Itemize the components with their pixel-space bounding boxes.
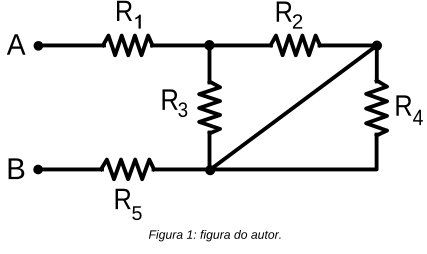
wire R2 to node D: [320, 43, 378, 47]
wire A to R1: [38, 43, 104, 47]
label R5 subscript 5: [132, 206, 141, 220]
wire node D down to R4: [375, 45, 379, 81]
label R3 subscript 3: [178, 102, 187, 117]
label R1 subscript 1: [135, 15, 141, 29]
resistor R1: [103, 36, 153, 56]
node D junction dot: [372, 41, 382, 51]
wire R3 to node E: [208, 133, 212, 170]
wire R1 to node C: [152, 43, 271, 47]
label R4 "R": [396, 95, 411, 115]
node terminal B dot: [33, 165, 43, 175]
resistor R2: [271, 36, 321, 56]
wire diagonal E to D: [210, 46, 377, 170]
node terminal A dot: [34, 41, 44, 51]
wire node C down to R3: [208, 45, 212, 82]
wire B to R5: [38, 167, 102, 171]
label R4 subscript 4: [413, 110, 423, 125]
resistor R3: [199, 82, 220, 134]
resistor R5: [101, 160, 154, 180]
wire R5 to bottom-right corner then up to R4: [154, 135, 377, 170]
label R5 "R": [116, 189, 131, 209]
label R2 subscript 2: [293, 14, 302, 28]
node C junction dot: [204, 40, 214, 50]
node label A: [7, 34, 26, 55]
label R2 "R": [277, 2, 292, 22]
node label B: [9, 158, 25, 179]
label R1 "R": [117, 1, 132, 21]
label R3 "R": [163, 89, 178, 110]
caption "Figura 1: figura do autor.": [149, 230, 281, 241]
node E junction dot: [205, 165, 215, 175]
resistor R4: [366, 81, 387, 136]
